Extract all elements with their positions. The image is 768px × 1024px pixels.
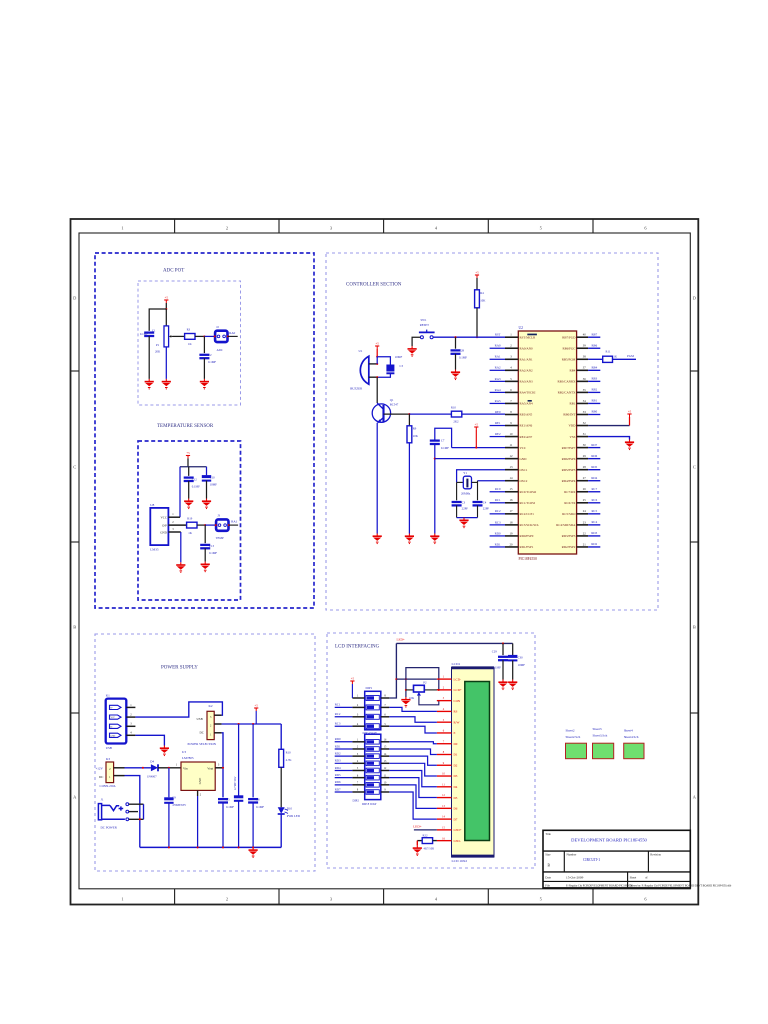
svg-text:+5: +5 xyxy=(255,704,259,708)
svg-text:2: 2 xyxy=(357,704,359,707)
wire node to C2 xyxy=(203,336,205,353)
wire rail to C10 xyxy=(206,467,208,476)
wire net RD6 xyxy=(335,784,353,786)
dashed box POWER SUPPLY xyxy=(95,634,315,871)
wire C9 to bottom rail xyxy=(168,803,170,848)
svg-text:RC4/SDI/SDA: RC4/SDI/SDA xyxy=(556,523,576,527)
pin 23 U2 (RC4/SDI/SDA) xyxy=(577,524,589,526)
svg-text:10K: 10K xyxy=(480,299,486,303)
wire net RD0 xyxy=(490,535,505,537)
wire buzzer bottom pin xyxy=(369,376,377,378)
svg-text:C4: C4 xyxy=(483,500,487,504)
svg-text:3: 3 xyxy=(443,697,445,700)
svg-text:16: 16 xyxy=(510,498,514,502)
svg-text:37: 37 xyxy=(583,366,587,370)
wire VDD to +5 xyxy=(588,425,629,427)
svg-text:RA5: RA5 xyxy=(495,399,501,403)
capacitor C10 10MF xyxy=(202,475,211,478)
wire net RB0 xyxy=(588,413,600,415)
pin 12 U2 (GND) xyxy=(505,458,518,460)
wire C29 to ground xyxy=(502,660,504,679)
pin 15 U2 (RC0/T1OSO) xyxy=(505,491,518,493)
svg-text:O/P: O/P xyxy=(162,523,167,527)
wire rail to C12 xyxy=(188,467,190,476)
svg-text:29: 29 xyxy=(583,454,587,458)
LCD module LCD1 xyxy=(452,667,495,857)
svg-text:D1: D1 xyxy=(454,753,458,757)
pin 16 LCD1 (LED-) xyxy=(437,840,452,842)
svg-text:CONTROLLER SECTION: CONTROLLER SECTION xyxy=(346,283,402,288)
svg-text:Vout: Vout xyxy=(207,767,213,771)
wire RST xyxy=(433,336,505,338)
wire net RD2 xyxy=(335,755,353,757)
capacitor C5 0.1MF xyxy=(218,798,228,800)
wire bottom rail xyxy=(140,846,281,848)
wire C30 to ground xyxy=(512,660,514,679)
svg-text:LED-: LED- xyxy=(454,839,461,843)
wire buzzer to Q1 collector xyxy=(376,377,378,403)
svg-text:6: 6 xyxy=(644,897,647,902)
svg-text:+5: +5 xyxy=(351,677,355,681)
svg-text:13: 13 xyxy=(510,465,514,469)
svg-text:R10: R10 xyxy=(286,750,292,754)
svg-text:RC0: RC0 xyxy=(495,487,501,491)
svg-text:18: 18 xyxy=(510,520,514,524)
svg-text:RC1: RC1 xyxy=(495,498,501,502)
wire Q1 emitter to ground xyxy=(376,423,378,534)
wire DIP2 to D6 xyxy=(389,785,437,809)
wire net RD2 xyxy=(588,546,600,548)
svg-text:14: 14 xyxy=(384,753,387,756)
wire net RA0 xyxy=(490,347,505,349)
svg-text:13: 13 xyxy=(384,760,387,763)
svg-text:F:\Regular Ckt PCB\DEVELOPMENT: F:\Regular Ckt PCB\DEVELOPMENT BOARD PIC… xyxy=(566,884,634,887)
svg-text:35: 35 xyxy=(583,388,587,392)
svg-text:RA1: RA1 xyxy=(495,355,501,359)
svg-text:D: D xyxy=(73,296,76,301)
svg-text:39: 39 xyxy=(583,344,587,348)
svg-text:1: 1 xyxy=(357,739,359,742)
pin 2 U3 (GND) xyxy=(197,790,199,796)
svg-text:23: 23 xyxy=(583,520,587,524)
svg-text:RB1: RB1 xyxy=(570,402,576,406)
svg-text:RST: RST xyxy=(495,333,501,337)
ground (Q1) xyxy=(373,534,382,545)
svg-text:SW1: SW1 xyxy=(421,318,428,322)
pin 2 K1 xyxy=(126,716,135,718)
svg-text:RD4: RD4 xyxy=(335,766,341,770)
wire net RA4 xyxy=(490,391,505,393)
svg-text:3: 3 xyxy=(357,753,359,756)
svg-text:PWR LED: PWR LED xyxy=(287,814,301,818)
svg-text:Sheet4.Sch: Sheet4.Sch xyxy=(624,735,639,739)
svg-text:Sheet4: Sheet4 xyxy=(624,729,633,733)
svg-text:TEMPERATURE SENSOR: TEMPERATURE SENSOR xyxy=(157,424,214,429)
wire DIP2 to D1 xyxy=(389,749,437,755)
svg-text:6: 6 xyxy=(644,226,647,231)
svg-text:9: 9 xyxy=(510,421,512,425)
svg-text:12: 12 xyxy=(510,454,514,458)
capacitor C4 22PF xyxy=(473,501,483,503)
wire buzzer top pin xyxy=(369,363,377,365)
wire DIP2 to D0 xyxy=(389,742,437,744)
svg-text:+5: +5 xyxy=(165,296,169,300)
svg-text:RST/MCLR: RST/MCLR xyxy=(520,335,537,339)
power +5 (VCC) xyxy=(474,427,478,430)
power +5 (rail) xyxy=(254,708,258,711)
svg-text:17: 17 xyxy=(510,509,514,513)
svg-text:4: 4 xyxy=(435,226,438,231)
svg-text:4: 4 xyxy=(357,760,359,763)
wire LED+ rail xyxy=(396,642,512,644)
pin 16 DIP2 xyxy=(381,741,390,743)
svg-text:Sheet: Sheet xyxy=(630,875,637,879)
pin 1 U2 (RST/MCLR) xyxy=(505,336,518,338)
pin 13 DIP2 xyxy=(381,762,390,764)
wire net RB7 xyxy=(588,336,600,338)
wire net RD5 xyxy=(588,469,600,471)
svg-text:of: of xyxy=(645,875,648,879)
pin 7 LCD1 (D0) xyxy=(437,743,452,745)
svg-text:8: 8 xyxy=(443,751,445,754)
svg-text:VCC: VCC xyxy=(161,516,167,520)
wire Q1 base xyxy=(384,413,410,415)
wire net RD1 xyxy=(490,546,505,548)
svg-text:14: 14 xyxy=(510,476,514,480)
ground (R22) xyxy=(416,841,418,846)
wire net RB2 xyxy=(588,391,600,393)
svg-text:15-Oct-2009: 15-Oct-2009 xyxy=(566,875,584,879)
svg-text:19: 19 xyxy=(510,531,514,535)
svg-text:DC: DC xyxy=(99,775,103,779)
svg-text:RC7/RX: RC7/RX xyxy=(564,490,576,494)
wire DIP2 to D7 xyxy=(389,792,437,819)
connector K3 CONN-2WA xyxy=(106,762,114,783)
svg-text:BUZZER: BUZZER xyxy=(350,387,363,391)
resistor R3 1K xyxy=(185,334,195,340)
svg-text:10MF: 10MF xyxy=(395,355,403,359)
svg-text:J1: J1 xyxy=(101,798,104,802)
svg-text:K1: K1 xyxy=(106,694,110,698)
svg-text:A: A xyxy=(693,795,697,800)
svg-text:R22: R22 xyxy=(423,834,429,838)
capacitor C6 0.1MF xyxy=(248,798,258,800)
wire rail to R10 branch xyxy=(280,724,282,749)
svg-text:10K: 10K xyxy=(409,696,415,700)
pin 18 U2 (RC3/SCK/SCL) xyxy=(505,524,518,526)
wire rail xyxy=(180,466,207,468)
sensor U8 LM35 xyxy=(150,508,168,545)
svg-text:RD1: RD1 xyxy=(495,542,501,546)
svg-text:R11: R11 xyxy=(606,349,611,353)
svg-text:+5: +5 xyxy=(628,410,632,414)
svg-text:RC4: RC4 xyxy=(591,520,597,524)
svg-text:16: 16 xyxy=(384,739,387,742)
wire net RD4 xyxy=(588,480,600,482)
svg-text:RD3: RD3 xyxy=(335,759,341,763)
wire D10 to rail xyxy=(280,814,282,847)
resistor R10 2K2 xyxy=(451,411,461,417)
potentiometer P2 10K xyxy=(406,689,414,691)
svg-text:11: 11 xyxy=(384,774,387,777)
pin 11 DIP2 xyxy=(381,777,390,779)
wire R4 to RST node xyxy=(476,308,478,337)
resistor R11 (RB5-PGM) xyxy=(588,358,603,360)
wire C1 to ground xyxy=(148,336,150,379)
pin 40 U2 (RB7/PGD) xyxy=(577,336,589,338)
wire C6 branch xyxy=(252,724,254,797)
svg-text:LM7805: LM7805 xyxy=(182,756,194,760)
pin 2 DIP1 xyxy=(352,706,364,708)
svg-text:D10: D10 xyxy=(287,806,293,810)
svg-text:U1: U1 xyxy=(359,349,363,353)
svg-text:Drawn by: F:\Regular Ckt PCB\D: Drawn by: F:\Regular Ckt PCB\DEVELOPMENT… xyxy=(630,884,732,887)
svg-text:RD4: RD4 xyxy=(591,476,597,480)
svg-text:C1: C1 xyxy=(152,328,156,332)
svg-text:4: 4 xyxy=(130,732,132,735)
resistor R19 1K xyxy=(187,522,197,528)
svg-text:20K: 20K xyxy=(155,349,161,353)
ground (C7) xyxy=(430,534,439,545)
pin 27 U2 (RD4/PSP4) xyxy=(577,480,589,482)
ground (U8) xyxy=(176,562,185,573)
svg-text:RC3: RC3 xyxy=(495,520,501,524)
svg-text:DIP2: DIP2 xyxy=(353,798,360,802)
wire DIP2 to D5 xyxy=(389,778,437,798)
regulator U3 LM7805 xyxy=(181,762,215,790)
pin 5 U2 (RA3/AN3) xyxy=(505,380,518,382)
wire C8 branch xyxy=(238,724,240,796)
crystal Y1 20MHz xyxy=(457,481,464,483)
DIP switch DIP1 (4 way) xyxy=(365,691,381,730)
svg-text:C: C xyxy=(693,465,696,470)
svg-text:RA0/AN0: RA0/AN0 xyxy=(520,346,534,350)
pin 9 U2 (RE1/AN6) xyxy=(505,425,518,427)
svg-text:LED+: LED+ xyxy=(397,638,405,642)
svg-text:3: 3 xyxy=(330,226,333,231)
svg-text:RD1/PSP1: RD1/PSP1 xyxy=(520,545,534,549)
svg-text:RD0: RD0 xyxy=(335,737,341,741)
svg-text:0.1MF: 0.1MF xyxy=(256,805,264,809)
overbar RA5 segment xyxy=(528,400,532,402)
svg-text:2K2: 2K2 xyxy=(453,419,459,423)
svg-text:LCD INTERFACING: LCD INTERFACING xyxy=(335,645,380,650)
pin 33 U2 (RB0/INT) xyxy=(577,413,589,415)
svg-text:4K7/10R: 4K7/10R xyxy=(424,847,435,851)
svg-text:1: 1 xyxy=(357,695,359,698)
svg-text:USB: USB xyxy=(197,717,203,721)
svg-text:TEMP: TEMP xyxy=(216,536,224,540)
svg-text:+5: +5 xyxy=(376,342,380,346)
overbar MCLR xyxy=(527,334,537,336)
svg-text:DIP 8 WAY: DIP 8 WAY xyxy=(362,802,377,806)
svg-text:22: 22 xyxy=(583,531,587,535)
svg-text:VCC: VCC xyxy=(111,717,116,719)
wire SW1 left to ground xyxy=(412,337,420,346)
pin 1 K1 xyxy=(126,706,135,708)
svg-text:RA3/AN3: RA3/AN3 xyxy=(520,380,534,384)
capacitor C29 0.1MF xyxy=(502,642,504,644)
ground (C1) xyxy=(145,379,154,390)
pin 4 DIP1 xyxy=(352,725,364,727)
pin 12 DIP2 xyxy=(381,769,390,771)
pin 1 K2 xyxy=(214,732,221,734)
wire R10 to D10 xyxy=(280,767,282,807)
wire net RC1 xyxy=(490,502,505,504)
wire U3 GND to bottom rail xyxy=(197,796,199,847)
DIP switch DIP2 (8 way) xyxy=(365,734,381,799)
wire to LCD pin1 xyxy=(396,678,437,680)
svg-text:1: 1 xyxy=(121,226,123,231)
pin 7 DIP1 xyxy=(381,706,390,708)
wire LED+ to pin15 xyxy=(414,829,437,831)
jumper J2 ADC xyxy=(215,331,227,342)
svg-text:RB6: RB6 xyxy=(591,343,597,347)
svg-text:Date: Date xyxy=(545,875,551,879)
svg-text:12: 12 xyxy=(442,794,445,797)
svg-text:LED+: LED+ xyxy=(454,828,462,832)
svg-text:A: A xyxy=(73,795,77,800)
svg-text:R4: R4 xyxy=(480,291,484,295)
wire net RC3 xyxy=(335,725,353,727)
wire VCC run xyxy=(452,447,505,449)
wire net RD7 xyxy=(588,447,600,449)
pin 14 LCD1 (D7) xyxy=(437,818,452,820)
wire DIP2 to D4 xyxy=(389,770,437,786)
wire R10 to RE0 xyxy=(462,413,505,415)
svg-text:8: 8 xyxy=(357,789,359,792)
pin 7 U2 (RA5/AN4) xyxy=(505,402,518,404)
svg-text:10MF: 10MF xyxy=(518,663,526,667)
svg-text:RA0: RA0 xyxy=(229,331,235,335)
svg-text:22PF: 22PF xyxy=(462,507,469,511)
wire net RD4 xyxy=(335,769,353,771)
svg-text:RB7/PGD: RB7/PGD xyxy=(562,335,576,339)
pin 3 DIP2 xyxy=(352,755,364,757)
wire J2 to RA0 xyxy=(228,335,238,337)
svg-text:GND: GND xyxy=(198,777,202,784)
svg-text:ADC: ADC xyxy=(217,348,223,352)
svg-text:RS: RS xyxy=(454,710,458,714)
svg-text:D4: D4 xyxy=(454,785,458,789)
wire net RE1 xyxy=(490,425,505,427)
dashed box TEMPERATURE SENSOR xyxy=(138,441,241,600)
pin 31 U2 (VSS) xyxy=(577,436,589,438)
svg-text:RC6/TX: RC6/TX xyxy=(564,501,576,505)
svg-text:RD0/PSP0: RD0/PSP0 xyxy=(520,534,534,538)
svg-text:C3: C3 xyxy=(400,364,404,368)
svg-text:E: E xyxy=(454,731,456,735)
svg-text:U8: U8 xyxy=(150,503,154,507)
wire GND run xyxy=(435,458,505,460)
svg-text:CON: CON xyxy=(454,699,461,703)
svg-text:BC547: BC547 xyxy=(390,403,399,407)
svg-text:LM35: LM35 xyxy=(150,547,159,551)
svg-text:GND: GND xyxy=(520,457,528,461)
pin 8 U2 (RE0/AN5) xyxy=(505,413,518,415)
svg-text:RB4: RB4 xyxy=(591,366,597,370)
wire net RC0 xyxy=(490,491,505,493)
svg-text:8: 8 xyxy=(510,410,512,414)
power +5 (TEMP) xyxy=(186,456,190,459)
svg-text:Number: Number xyxy=(567,853,577,857)
wire node to J3 xyxy=(205,524,216,526)
pin 14 DIP2 xyxy=(381,755,390,757)
ground (C2) xyxy=(200,379,209,390)
wire C6 to bottom rail xyxy=(252,803,254,848)
resistor R9 10K xyxy=(408,414,410,426)
wire net RD3 xyxy=(335,762,353,764)
svg-text:470MF/63V: 470MF/63V xyxy=(172,804,186,807)
svg-text:B: B xyxy=(693,625,696,630)
svg-text:1: 1 xyxy=(121,897,123,902)
pin 3 U8 xyxy=(168,531,180,533)
pin 1 DIP2 xyxy=(352,741,364,743)
svg-text:6: 6 xyxy=(443,730,445,733)
svg-text:P1: P1 xyxy=(156,343,160,347)
wire net RD3 xyxy=(588,535,600,537)
svg-text:ADC POT: ADC POT xyxy=(163,269,184,274)
jumper J3 TEMP xyxy=(216,519,228,530)
svg-text:+5: +5 xyxy=(186,451,190,455)
pin 8 DIP2 xyxy=(352,791,364,793)
resistor R10 4.7K (LED) xyxy=(279,749,284,767)
svg-text:15: 15 xyxy=(384,746,387,749)
ground (C13) xyxy=(201,562,210,573)
svg-text:RC0/T1OSO: RC0/T1OSO xyxy=(520,490,537,494)
pin 2 DIP2 xyxy=(352,748,364,750)
potentiometer P1 20K xyxy=(165,309,167,326)
wire net RD6 xyxy=(588,458,600,460)
svg-text:RC5/SDO: RC5/SDO xyxy=(562,512,576,516)
svg-text:RB4: RB4 xyxy=(570,369,576,373)
svg-text:GND: GND xyxy=(160,530,167,534)
microcontroller U2 PIC18F4550 xyxy=(518,331,576,554)
svg-text:RD4/PSP4: RD4/PSP4 xyxy=(562,479,576,483)
svg-text:D: D xyxy=(693,296,696,301)
pin 15 DIP2 xyxy=(381,748,390,750)
wire net RB3 xyxy=(588,380,600,382)
svg-text:1: 1 xyxy=(510,333,512,337)
svg-text:7: 7 xyxy=(443,740,445,743)
pin 6 LCD1 (E) xyxy=(437,732,452,734)
pin 12 LCD1 (D5) xyxy=(437,797,452,799)
sheet border frame xyxy=(71,219,699,905)
svg-text:RC6: RC6 xyxy=(591,498,597,502)
svg-text:RA1/AN1: RA1/AN1 xyxy=(520,357,534,361)
svg-text:RA5/AN4: RA5/AN4 xyxy=(520,402,534,406)
svg-text:RE1/AN6: RE1/AN6 xyxy=(520,424,533,428)
pin 39 U2 (RB6/PGC) xyxy=(577,347,589,349)
svg-text:D5: D5 xyxy=(454,796,458,800)
svg-text:RB2/CANTX: RB2/CANTX xyxy=(558,391,576,395)
svg-text:RD5: RD5 xyxy=(591,465,597,469)
LED D10 PWR LED xyxy=(278,807,285,813)
ground (bottom rail) xyxy=(249,847,258,858)
pin 1 LCD1 (LCD-) xyxy=(437,678,452,680)
svg-text:POWER SUPPLY: POWER SUPPLY xyxy=(161,666,198,671)
svg-text:+5: +5 xyxy=(475,423,479,427)
svg-text:4: 4 xyxy=(510,366,512,370)
svg-text:RA3: RA3 xyxy=(495,377,501,381)
wire C8 to bottom rail xyxy=(238,801,240,848)
pin 25 U2 (RC6/TX) xyxy=(577,502,589,504)
svg-text:21: 21 xyxy=(583,542,587,546)
svg-text:OSC1: OSC1 xyxy=(520,468,528,472)
svg-text:C3: C3 xyxy=(462,500,466,504)
power +5 (VDD) xyxy=(627,414,631,417)
svg-text:J3: J3 xyxy=(217,514,220,518)
